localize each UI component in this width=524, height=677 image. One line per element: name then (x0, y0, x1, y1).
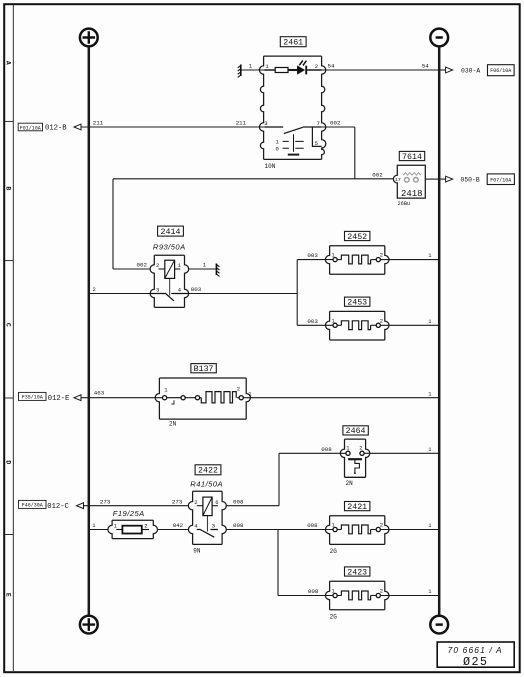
wire 2452 to right bus (380, 259, 439, 261)
unit B137 right edge pin 2 (246, 378, 250, 419)
wire 008 into 2464 (279, 452, 346, 454)
svg-text:F35/10A: F35/10A (22, 395, 43, 401)
wire 002 down to relay 2414 (112, 179, 114, 269)
svg-text:030-A: 030-A (461, 67, 480, 74)
wire feed 2453 (297, 324, 335, 326)
heater 2421 outline top (330, 515, 385, 517)
svg-text:0: 0 (276, 146, 279, 153)
wire resistor to LED (288, 69, 298, 71)
thermostat ref box 2464 (343, 426, 368, 436)
svg-text:2: 2 (359, 445, 362, 452)
wire 2 from left bus to pin3 (89, 293, 151, 295)
lamp ref box 2461 (280, 37, 306, 48)
svg-text:008: 008 (307, 522, 318, 529)
wire to element 2423 (337, 595, 341, 597)
svg-text:2G: 2G (330, 548, 338, 555)
svg-text:7: 7 (317, 120, 320, 127)
unit B137 outline top (159, 377, 246, 379)
wire feed 2421 (297, 529, 335, 531)
svg-text:2: 2 (237, 385, 240, 392)
actuator mark B137 (171, 400, 174, 404)
svg-text:002: 002 (330, 120, 341, 127)
svg-text:2418: 2418 (401, 189, 423, 199)
switch blade inside 2461 (265, 127, 303, 134)
svg-text:2464: 2464 (346, 427, 366, 436)
ground bar inside 2461 (288, 154, 299, 156)
stub to 030-A (439, 69, 446, 71)
svg-text:6: 6 (215, 499, 218, 506)
heater 2453 outline bottom (330, 339, 385, 341)
heating element 2453 (341, 321, 370, 330)
heater 2423 outline bottom (330, 609, 385, 611)
svg-text:2461: 2461 (283, 39, 303, 48)
svg-text:54: 54 (422, 63, 429, 70)
wire to element 2452 (337, 259, 341, 261)
wire b to c (185, 397, 195, 399)
wire relay pin1 to ground (189, 268, 217, 270)
wire 008 pin6 to riser (226, 505, 279, 507)
pin 2 contact of 2453 (376, 323, 380, 327)
wire 1 bus to fuse (89, 529, 108, 531)
svg-text:B137: B137 (194, 365, 214, 374)
svg-text:F06/10A: F06/10A (490, 68, 511, 74)
heater 2423 right edge pin 2 (385, 581, 389, 610)
svg-text:003: 003 (191, 286, 202, 293)
wire element to pin2 2453 (371, 324, 377, 326)
relay ref box 2422 (195, 465, 221, 476)
unit ref box B137 (191, 364, 216, 374)
row label A (5, 61, 12, 65)
wire 008 pin3 to 2421 (226, 529, 335, 531)
svg-text:2423: 2423 (347, 568, 367, 577)
lighter heating element (grey) (403, 173, 421, 176)
svg-text:2452: 2452 (347, 233, 367, 242)
heater 2453 right edge pin 2 (385, 311, 389, 340)
svg-text:7614: 7614 (402, 153, 422, 162)
svg-text:F01/10A: F01/10A (20, 125, 41, 131)
svg-text:2: 2 (93, 286, 96, 293)
right ground bus wire (438, 47, 441, 615)
resistor inside 2461 (275, 68, 288, 73)
scale tick A/B (5, 120, 14, 122)
svg-text:3: 3 (156, 287, 159, 294)
svg-text:012-C: 012-C (47, 503, 69, 511)
relay 2414 contact blade (151, 293, 189, 301)
arrow in from F35 (74, 395, 81, 401)
wire element to contact d (237, 397, 239, 399)
svg-text:003: 003 (307, 252, 318, 259)
wire into relay pin2 (113, 268, 151, 270)
B137 resistor element (201, 392, 236, 403)
pin 2 contact of 2452 (376, 258, 380, 262)
wire 2421 to right bus (380, 529, 439, 531)
arrow in from F46 (77, 503, 84, 509)
svg-text:26Bu: 26Bu (398, 201, 411, 207)
arrow out 030-A (446, 67, 453, 73)
heater 2452 left edge pin 1 (325, 246, 329, 275)
svg-text:Ø25: Ø25 (463, 655, 488, 669)
svg-text:273: 273 (100, 498, 111, 505)
vertical node 003 (296, 260, 298, 326)
relay 2422 outline bottom (193, 543, 223, 545)
svg-text:012-E: 012-E (48, 395, 70, 403)
unit B137 left edge pin 1 (155, 378, 159, 419)
relay 2414 outline top (154, 254, 184, 256)
wire element to pin2 2423 (371, 595, 377, 597)
arrow in from F01 (74, 124, 81, 130)
heating element 2452 (341, 255, 370, 264)
thermostat 2464 left edge pin 1 (340, 439, 344, 477)
svg-text:2414: 2414 (161, 228, 181, 237)
wire 2423 to right bus (380, 595, 439, 597)
wire 2453 to right bus (380, 324, 439, 326)
svg-text:54: 54 (328, 63, 335, 70)
heater 2453 ref box (345, 297, 370, 307)
wire 2418 to right bus (425, 178, 439, 180)
wire 463 from arrow to B137 pin1 (81, 397, 163, 399)
wire 2461 pin2 to right bus, wire 54 (322, 69, 440, 71)
heater 2452 outline bottom (330, 273, 385, 275)
heater 2452 outline top (330, 245, 385, 247)
svg-text:2: 2 (315, 63, 318, 70)
fuse F19 outline top (112, 519, 153, 521)
relay ref box 2414 (158, 226, 184, 237)
svg-text:F46/30A: F46/30A (22, 503, 43, 509)
pin 1 contact of 2452 (333, 258, 337, 262)
fuse ref box F01/10A (18, 123, 42, 131)
svg-text:008: 008 (308, 588, 319, 595)
wire feed 2452 (297, 259, 335, 261)
relay 2414 armature link (169, 278, 171, 295)
svg-text:3: 3 (212, 523, 215, 530)
svg-text:273: 273 (172, 498, 183, 505)
wire coil to pin1 (175, 268, 181, 270)
heater 2421 outline bottom (330, 543, 385, 545)
wire feed 2423 (278, 595, 335, 597)
wire 003 from pin4 (189, 293, 298, 295)
svg-text:3: 3 (264, 120, 267, 127)
wire 002 down (354, 127, 356, 179)
fuse F19 element (122, 526, 141, 534)
wire to element 2453 (337, 324, 341, 326)
svg-text:9N: 9N (193, 547, 201, 554)
svg-text:F07/10A: F07/10A (490, 177, 511, 183)
wire coil to pin6 2422 (212, 505, 218, 507)
svg-text:A: A (5, 61, 12, 65)
wire to element 2421 (337, 529, 341, 531)
heating element 2421 (341, 525, 370, 534)
thermostat 2464 right edge pin 2 (366, 439, 370, 477)
wire 2464 to right bus (364, 452, 439, 454)
thermostat 2464 outline bottom (345, 476, 366, 478)
wire 002 horizontal (113, 178, 394, 180)
wire pin7 segment (303, 126, 322, 128)
fuse F19 left edge pin 1 (108, 520, 112, 538)
svg-text:2: 2 (380, 317, 383, 324)
scale tick D/E (5, 534, 14, 536)
minus terminal bottom (430, 616, 448, 634)
svg-text:2422: 2422 (198, 467, 218, 476)
pin 5 inner link (312, 127, 321, 146)
plus terminal top (80, 29, 98, 47)
pin 1 contact of 2464 (346, 451, 350, 455)
relay 2414 left edge pins 2,3 (150, 255, 154, 307)
LED arrows (299, 61, 306, 66)
svg-text:008: 008 (233, 498, 244, 505)
wire 2461 pin1 to resistor (265, 69, 276, 71)
svg-text:F19/25A: F19/25A (113, 509, 145, 518)
fuse F19 right edge pin 2 (153, 520, 157, 538)
lamp unit 2461 right edge with pins 2,7,5 (322, 56, 326, 159)
switch blade B137 (167, 397, 181, 399)
B137 contact b (181, 396, 185, 400)
pin 1 contact of 2453 (333, 323, 337, 327)
heater 2452 right edge pin 2 (385, 246, 389, 275)
heater 2421 ref box (345, 502, 370, 512)
svg-text:R41/50A: R41/50A (190, 479, 223, 488)
lamp unit 2461 outline top (264, 55, 322, 57)
relay 2422 contact blade (197, 529, 218, 537)
heater 2453 left edge pin 1 (325, 311, 329, 340)
thermostat 2464 outline top (345, 438, 366, 440)
chassis ground at relay 2414 (215, 264, 217, 276)
B137 contact c (195, 396, 199, 400)
svg-text:463: 463 (94, 390, 105, 397)
svg-text:2453: 2453 (347, 299, 367, 308)
relay 2422 armature link (206, 516, 208, 532)
wire gnd to 2461 pin1 (241, 69, 265, 71)
B137 contact d (239, 396, 243, 400)
unit ref box 7614 (399, 151, 424, 161)
svg-text:2: 2 (380, 252, 383, 259)
svg-text:D: D (5, 460, 12, 464)
LED D1 inside 2461 (298, 66, 305, 74)
svg-text:050-B: 050-B (461, 177, 480, 184)
svg-text:003: 003 (307, 318, 318, 325)
relay 2422 right edge pins 6,3 (222, 491, 226, 544)
row label C (5, 323, 12, 327)
wire pin2 to coil 2422 (197, 505, 203, 507)
heater 2421 left edge pin 1 (325, 516, 329, 545)
relay 2414 coil (165, 260, 175, 278)
wire element to pin2 2421 (371, 529, 377, 531)
lighter lamp contacts (grey) (405, 178, 410, 183)
left supply bus wire (88, 47, 91, 615)
pin 2 contact of 2423 (376, 593, 380, 597)
title block box (437, 642, 514, 667)
lamp unit 2461 outline bottom (264, 158, 322, 160)
svg-text:2G: 2G (330, 614, 338, 621)
2464 bimetal step (355, 459, 360, 473)
svg-text:B: B (5, 186, 12, 190)
pin 2 contact of 2421 (376, 527, 380, 531)
heater 2421 right edge pin 2 (385, 516, 389, 545)
wire 002 pin7 right (322, 126, 355, 128)
chassis ground at 2461 input (240, 65, 242, 77)
relay 2414 outline bottom (154, 306, 184, 308)
2464 contact bar (348, 458, 362, 460)
svg-text:10N: 10N (265, 163, 276, 170)
lighter 2418 outline (393, 165, 425, 198)
svg-text:70 6661 / A: 70 6661 / A (448, 645, 503, 655)
svg-text:002: 002 (372, 172, 383, 179)
row label E (5, 593, 12, 597)
heating element 2423 (341, 591, 370, 600)
row label B (5, 186, 12, 190)
svg-text:012-B: 012-B (45, 124, 67, 132)
svg-text:2: 2 (144, 523, 147, 530)
scale tick C/D (5, 397, 14, 399)
fuse ref box F06/10A (488, 65, 515, 76)
svg-text:008: 008 (233, 522, 244, 529)
svg-text:2: 2 (156, 262, 159, 269)
svg-text:R93/50A: R93/50A (153, 243, 186, 252)
wire 273 to relay pin2 (84, 505, 189, 507)
relay 2422 left edge pins 2,4 (188, 491, 192, 544)
svg-text:5: 5 (315, 140, 318, 147)
heater 2423 outline top (330, 580, 385, 582)
wire LED to pin2 (306, 69, 321, 71)
relay 2422 coil (203, 497, 212, 515)
svg-text:042: 042 (173, 522, 184, 529)
heater 2423 left edge pin 1 (325, 581, 329, 610)
fuse ref box F46/30A (19, 500, 47, 508)
svg-text:2: 2 (194, 499, 197, 506)
svg-text:211: 211 (236, 120, 247, 127)
svg-text:17: 17 (395, 177, 401, 183)
svg-text:211: 211 (93, 120, 104, 127)
wire B137 to right bus (243, 397, 439, 399)
fuse F19 outline bottom (112, 538, 153, 540)
plus terminal bottom (80, 616, 98, 634)
svg-text:E: E (5, 593, 12, 597)
wire pin2 to coil (159, 268, 165, 270)
element lead B137 (200, 397, 202, 399)
switch positions 1/0 inside 2461 (283, 134, 304, 152)
pin 1 contact of 2421 (333, 527, 337, 531)
svg-text:C: C (5, 323, 12, 327)
heater 2453 outline top (330, 310, 385, 312)
svg-text:2: 2 (380, 588, 383, 595)
svg-text:2: 2 (380, 522, 383, 529)
heater 2423 ref box (345, 567, 370, 577)
wire 211 from arrow to 2461 pin3 (81, 126, 265, 128)
relay 2414 right edge pins 1,4 (185, 255, 189, 307)
relay 2422 outline top (193, 490, 223, 492)
svg-text:2421: 2421 (347, 503, 367, 512)
B137 contact a (163, 396, 167, 400)
svg-text:008: 008 (321, 446, 332, 453)
fuse ref box F07/10A (487, 174, 514, 185)
minus terminal top (430, 29, 448, 47)
heater 2452 ref box (345, 231, 370, 241)
wire 008 drop to 2423 (277, 530, 279, 596)
pin 1 contact of 2423 (333, 593, 337, 597)
svg-text:2N: 2N (346, 480, 354, 487)
fuse ref box F35/10A (19, 392, 47, 400)
wire element to pin2 2452 (371, 259, 377, 261)
svg-text:2N: 2N (169, 420, 177, 427)
pin 2 contact of 2464 (360, 451, 364, 455)
stub to 050-B (439, 178, 446, 180)
wire 042 fuse to relay pin4 (158, 529, 189, 531)
left margin scale line (12, 5, 14, 671)
row label D (5, 460, 12, 464)
svg-text:002: 002 (137, 262, 148, 269)
unit B137 outline bottom (159, 418, 246, 420)
lamp unit 2461 left edge with pins 1,3 (259, 56, 263, 159)
arrow out 050-B (446, 176, 453, 182)
wire 008 riser to relay (278, 453, 280, 505)
scale tick B/C (5, 260, 14, 262)
